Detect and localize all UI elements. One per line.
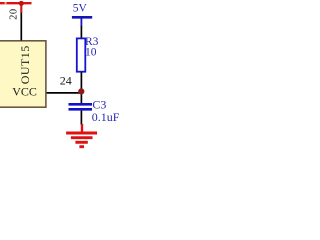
capacitor C3 top plate <box>69 103 93 106</box>
svg-text:20: 20 <box>8 8 19 20</box>
svg-text:10: 10 <box>85 47 97 59</box>
ground bar 1 <box>66 132 97 135</box>
capacitor C3 bottom plate <box>69 108 93 111</box>
svg-text:5V: 5V <box>73 2 88 14</box>
resistor R3 body <box>77 38 86 71</box>
wire red vertical stub to pin 20 <box>20 2 22 13</box>
pin 20 lead (black) <box>20 12 22 40</box>
wire red horizontal (net to pin 20) <box>0 2 32 4</box>
power port 5V stem (navy) <box>80 17 82 26</box>
capacitor C3 bottom pin (black) <box>80 111 82 125</box>
svg-text:OUT15: OUT15 <box>18 45 32 84</box>
svg-text:24: 24 <box>60 74 72 88</box>
ground bar 4 <box>79 145 84 148</box>
ground stem (red) <box>81 124 83 133</box>
svg-text:VCC: VCC <box>12 85 37 99</box>
junction dot top-left <box>19 1 24 6</box>
resistor R3 bottom pin / wire to junction (black) <box>80 72 82 103</box>
power port 5V bar <box>72 16 92 19</box>
svg-text:0.1uF: 0.1uF <box>92 110 120 124</box>
resistor R3 top pin (black) <box>80 26 82 39</box>
ground bar 3 <box>75 141 87 144</box>
ground bar 2 <box>71 136 93 139</box>
wire end gap highlight <box>5 2 7 5</box>
pin 24 lead (black) <box>47 92 82 94</box>
IC U? body (partial, cut off at left) <box>0 41 46 107</box>
junction dot at node (pin24 / R3 / C3) <box>78 88 84 94</box>
